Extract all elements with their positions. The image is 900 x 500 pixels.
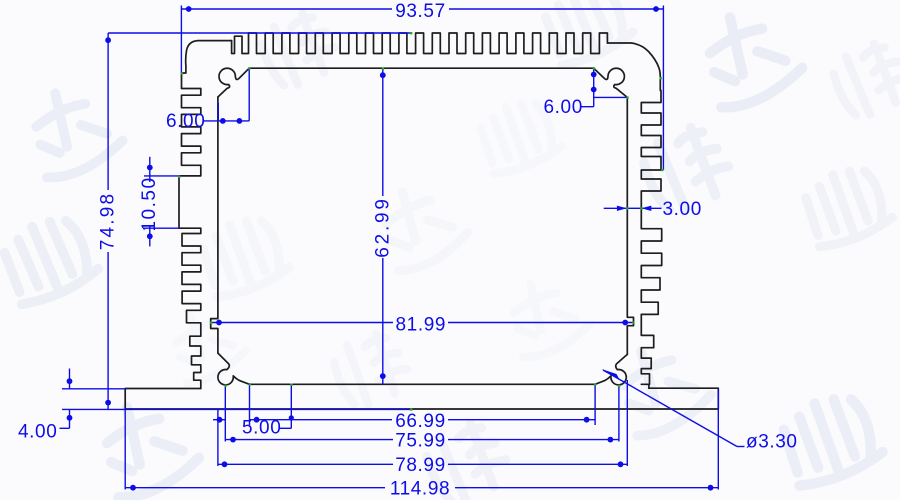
svg-text:3.00: 3.00: [663, 199, 702, 220]
svg-text:4.00: 4.00: [18, 422, 57, 443]
screw boss top-right: [594, 68, 628, 97]
dimension 6.00 (top-right boss depth): [544, 68, 628, 118]
dimension 93.57 (top overall width): [181, 1, 663, 170]
svg-text:5.00: 5.00: [242, 418, 281, 439]
svg-text:93.57: 93.57: [395, 1, 446, 22]
dimension 6.00 (top-left boss offset): [166, 68, 249, 132]
svg-text:74.98: 74.98: [98, 192, 119, 251]
svg-text:66.99: 66.99: [395, 411, 446, 432]
dimension 3.00 (right wall thickness): [604, 199, 702, 220]
svg-text:78.99: 78.99: [395, 455, 446, 476]
inner right wall with PCB groove: [627, 97, 633, 354]
inner floor: [250, 383, 596, 385]
left wall outer (fins, rail block, staircase): [179, 41, 232, 389]
svg-text:10.50: 10.50: [139, 176, 160, 231]
screw boss bottom-right: [595, 354, 627, 384]
inner top wall: [249, 67, 594, 69]
top heatsink fins: [232, 33, 608, 54]
dimension 78.99 (inner wall span): [218, 380, 627, 476]
svg-text:ø3.30: ø3.30: [746, 432, 798, 453]
svg-text:75.99: 75.99: [395, 430, 446, 451]
svg-text:114.98: 114.98: [390, 478, 450, 499]
screw boss bottom-left: [218, 353, 250, 385]
dimension 62.99 (inner height): [372, 68, 393, 384]
dimension 10.50 (left rail block height): [139, 157, 180, 247]
dimension 81.99 (groove-to-groove width): [211, 315, 634, 336]
svg-text:6.00: 6.00: [544, 97, 583, 118]
dimension 114.98 (base plate width): [125, 389, 718, 499]
leader dimension diameter 3.30 (screw hole): [602, 369, 798, 453]
right wall outer (corner + fins + staircase): [607, 43, 661, 388]
inner left wall with PCB groove: [211, 97, 218, 353]
dimension 5.00 (boss to floor corner): [242, 385, 294, 439]
svg-text:81.99: 81.99: [396, 315, 447, 336]
dimension 75.99 (screw centers): [225, 386, 619, 451]
dimension 74.98 (left overall height): [98, 33, 411, 409]
dimension 4.00 (base plate thickness): [18, 369, 412, 443]
screw boss top-left: [218, 68, 249, 97]
base plate: [125, 388, 718, 409]
svg-text:6.00: 6.00: [166, 111, 205, 132]
dimension 66.99 (floor width): [213, 384, 595, 432]
defpoint markers: [178, 32, 664, 411]
svg-text:62.99: 62.99: [372, 196, 393, 258]
